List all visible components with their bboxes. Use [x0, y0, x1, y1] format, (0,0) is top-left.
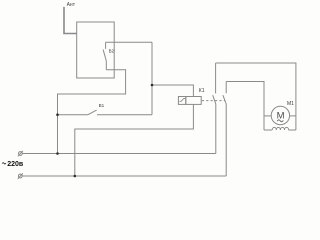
wire relay coil bottom to rail L2 [75, 104, 194, 176]
relay K1 coil body [186, 97, 201, 105]
relay contact K1.1 bottom lead to rail L1 [215, 104, 217, 154]
power rail L1 (top) [22, 153, 215, 155]
switch S1 right lead [97, 114, 152, 116]
switch contact B2 arm [103, 50, 106, 61]
junction node relay coil branch [151, 84, 154, 87]
motor winding L inductor arcs [272, 127, 288, 130]
junction node on rail L2 [74, 175, 77, 178]
wire B2 bottom to left vertical and down to rail L1 [58, 70, 126, 154]
relay contact K1.2 bottom lead to rail L2 [225, 104, 227, 176]
wire contact K1.1 to motor right side [216, 63, 296, 130]
motor tilde [277, 120, 283, 122]
relay contact K1.1 top lead [215, 63, 217, 93]
antenna Ант lead wire [64, 7, 77, 34]
terminal X2 circle [18, 174, 22, 178]
wire node x152 to relay coil K1 top [152, 85, 193, 97]
motor M1 right terminal stub [290, 115, 296, 117]
wire contact K1.2 to motor left side [226, 82, 264, 131]
svg-text:М1: М1 [287, 101, 294, 107]
label ~220v tilde [2, 163, 6, 164]
switch contact B2 bottom lead [105, 61, 107, 70]
wire vertical x152 from B2 wire to S1 wire [151, 42, 153, 114]
junction node on rail L1 [56, 152, 59, 155]
svg-text:В2: В2 [109, 48, 115, 53]
svg-text:К1: К1 [199, 88, 205, 94]
svg-text:220в: 220в [7, 161, 24, 168]
terminal X1 circle [19, 152, 23, 156]
terminal X2 slash [18, 173, 23, 178]
terminal X1 slash [18, 151, 23, 156]
relay contact K1.2 top lead [225, 82, 227, 94]
switch contact B2 top stub [105, 42, 107, 49]
relay contact K1.1 arm [213, 95, 216, 104]
svg-text:Ант: Ант [67, 2, 76, 8]
motor M1 body circle [271, 106, 289, 124]
relay K1 coil symbol zigzag [179, 99, 185, 102]
relay K1 coil small square [178, 97, 185, 105]
relay K1 mechanical link (dashed) [202, 100, 226, 102]
relay contact K1.2 arm [223, 95, 226, 104]
power rail L2 (bottom) [22, 175, 226, 177]
motor M1 left terminal stub [264, 115, 271, 117]
switch S1 left lead [58, 114, 89, 116]
svg-text:В1: В1 [99, 103, 105, 108]
receiver box B1 [77, 22, 115, 78]
junction node S1/B2 branch [56, 113, 59, 116]
motor winding L bottom right wire [289, 129, 296, 131]
wire B2 top to node at x152 [106, 41, 152, 43]
switch S1 arm [88, 110, 97, 115]
motor winding L (inductor) bottom left wire [264, 129, 272, 131]
